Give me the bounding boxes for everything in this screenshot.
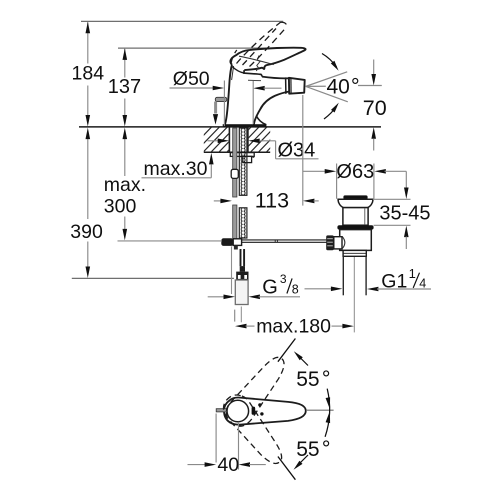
thin rod line beside hose [231,246,233,294]
threaded shank tube (upper segment) [239,128,247,195]
svg-text:3: 3 [280,272,287,286]
label G1 1/4 with leader [305,266,432,293]
svg-text:35-45: 35-45 [379,202,430,224]
dimension G3/8 arrows [208,295,300,300]
pop-up pull rod (lower segment) [233,205,237,239]
press direction arrow at pop-up rod [213,114,218,125]
dashed handle swung -55deg [218,390,290,471]
dimension 40 [188,414,266,477]
pop-up knob in plan [216,409,226,412]
drain bottom ring [343,250,366,256]
lever squiggle detail [256,56,260,72]
plan view boss circle [227,400,249,422]
svg-text:°: ° [322,366,331,391]
faucet supply centerline [240,307,242,323]
svg-text:Ø34: Ø34 [278,140,316,162]
dimension 113 [214,95,319,213]
svg-text:G: G [262,276,278,298]
faucet body white silhouette [223,47,306,126]
svg-text:137: 137 [108,76,141,98]
label G 3/8 [262,272,299,299]
svg-text:G1: G1 [381,271,407,293]
svg-text:184: 184 [72,63,105,85]
clamp screw block [233,239,241,246]
handle indicator bar and dots [252,403,264,415]
spray swivel arc arrows [322,54,337,68]
drain lever knurled knob [326,235,334,250]
angular arc [325,389,330,437]
dimension diameter 34 [208,139,319,162]
supply hose tube with dark edges [240,249,245,266]
dimension 184 [72,22,105,127]
svg-text:55: 55 [296,368,319,391]
drain locknut [337,225,373,229]
leader to -55 [299,455,308,464]
second reference line (lever height 137) [118,47,268,49]
dimension max.180 [235,310,354,338]
dimension max.30 [142,153,214,180]
arc mid arrowheads at zero line [326,397,331,409]
horizontal pop-up linkage rod [222,240,326,242]
spout top edge [262,77,289,79]
drain neck [343,208,368,226]
svg-text:8: 8 [292,283,299,297]
spray lines from aerator [306,72,382,102]
countertop deck section with hatching [79,126,381,154]
drain tailpipe G1 1/4 [343,256,366,295]
svg-text:55: 55 [296,438,319,461]
top reference line (spout raised height) [81,20,283,22]
svg-text:40: 40 [327,76,350,99]
drain centerline [353,251,355,333]
svg-text:113: 113 [255,189,289,213]
rod stub below clamp [234,245,238,249]
mounting nut on shank [243,156,252,162]
mounting washer under deck [230,153,254,158]
body left edge [225,65,232,126]
dimension 35-45 [373,171,431,249]
threaded shank tube (lower segment) [239,208,247,238]
clevis clamp at pull rod end [221,238,233,246]
supply hose dark end section [240,266,245,272]
pop-up pull rod (vertical, upper segment) [233,128,237,197]
dimension diameter 63 [303,161,407,199]
G3/8 connection tube [235,280,248,305]
svg-text:Ø50: Ø50 [173,68,210,90]
body inner left line [232,66,234,80]
zero reference line [306,409,334,411]
radial extension line -55 [278,457,296,480]
spout underside curve [254,92,289,125]
drain lever port [334,237,345,249]
raised lever dashed ghost [231,22,287,66]
clip on pull rod [231,169,238,178]
dimension max.300 [104,128,222,241]
svg-text:max.: max. [104,174,146,196]
dimension 390 [70,128,103,278]
plan view solid handle [224,398,306,425]
svg-text:300: 300 [104,196,137,218]
svg-text:Ø63: Ø63 [336,161,374,183]
lever outline [230,48,305,70]
drain body [340,230,372,251]
svg-text:max.30: max.30 [144,158,208,180]
leader to +55 [299,357,308,366]
supply hose nut [236,272,248,280]
svg-text:4: 4 [419,277,426,291]
svg-text:40: 40 [217,454,239,476]
pop-up waste flange [338,199,373,207]
dome rim [244,70,262,77]
lever inner crease [239,56,274,64]
faucet base dark band [223,124,267,127]
dashed handle swung +55deg [221,350,293,431]
spout end piece and aerator [286,77,305,93]
svg-text:1: 1 [409,266,416,281]
svg-text:max.180: max.180 [256,316,331,338]
svg-text:°: ° [351,74,360,99]
shoulder line at spout root [248,79,261,81]
dome rim line [232,67,244,73]
svg-text:°: ° [322,436,331,461]
bottom reference line (supply connection level) [72,277,234,279]
base right flare [256,116,266,125]
svg-text:390: 390 [70,221,103,243]
radial extension line +55 [278,339,296,362]
pop-up waste plug cap [343,195,367,199]
svg-text:70: 70 [363,96,387,120]
pop-up knob [214,97,227,113]
dimension 137 [108,48,141,126]
dimension diameter 50 [170,68,282,126]
dimension 70 [363,60,387,151]
